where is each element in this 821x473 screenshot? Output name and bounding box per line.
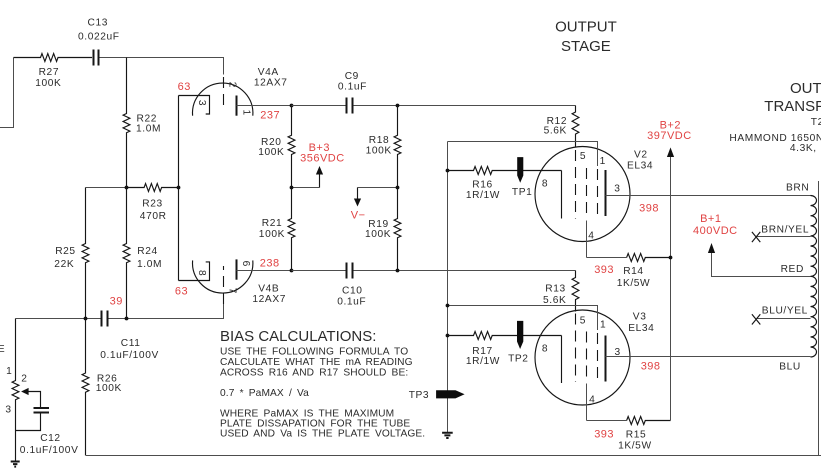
svg-text:6: 6	[240, 261, 251, 267]
tube V4A 12AX7 (top triode) envelope	[193, 83, 253, 116]
wire wiper to C12	[28, 392, 40, 408]
svg-text:OUTPUT: OUTPUT	[790, 80, 821, 97]
node junction R14/B+2 bus	[669, 256, 673, 260]
svg-text:TP2: TP2	[508, 354, 528, 365]
transformer T2 primary winding	[811, 196, 817, 358]
svg-text:393: 393	[594, 264, 614, 276]
node junction bus/R17	[446, 334, 450, 338]
svg-text:C10: C10	[342, 285, 363, 296]
V3 suppressor dashed	[597, 333, 599, 379]
wire C11 to V4B grid	[109, 304, 224, 319]
svg-text:V2: V2	[634, 150, 648, 161]
svg-text:63: 63	[175, 285, 188, 297]
wire C10 to R13 corner	[353, 270, 575, 272]
node junction R18/R19	[396, 186, 400, 190]
V2 suppressor (pin 1) wire from cathode bus	[448, 142, 598, 167]
resistor R24	[123, 188, 130, 319]
svg-text:V−: V−	[351, 209, 366, 221]
svg-text:0.7 * PaMAX / Va: 0.7 * PaMAX / Va	[220, 388, 309, 399]
node junction C10/R19	[396, 269, 400, 273]
V3 plate (pin 3)	[605, 336, 607, 382]
wire V2 plate to transformer BRN	[606, 195, 811, 197]
svg-text:R13: R13	[545, 284, 566, 295]
wire V2 screen to R14	[587, 257, 627, 259]
svg-text:397VDC: 397VDC	[647, 130, 692, 142]
svg-text:C13: C13	[88, 18, 109, 29]
svg-text:356VDC: 356VDC	[300, 153, 345, 165]
test point TP1	[517, 157, 523, 183]
svg-text:RED: RED	[781, 264, 804, 275]
wire C9 to R12 corner	[353, 105, 575, 107]
V4B plate (pin 6)	[236, 259, 238, 279]
wire left input stub	[0, 58, 14, 128]
resistor R19	[394, 188, 401, 271]
svg-text:100K: 100K	[96, 383, 122, 394]
svg-text:1.0M: 1.0M	[137, 259, 162, 270]
power B+1 arrow	[708, 243, 715, 253]
svg-text:100K: 100K	[366, 145, 392, 156]
V2 plate (pin 3)	[605, 170, 607, 216]
V3 screen grid dashed (pin 4)	[586, 332, 588, 382]
potentiometer (bias pot)	[12, 319, 19, 462]
svg-text:1K/5W: 1K/5W	[617, 278, 651, 289]
svg-text:OUTPUT: OUTPUT	[555, 19, 617, 36]
node junction bus/V3 suppressor	[446, 304, 450, 308]
V3 suppressor (pin 1) wire from cathode bus	[448, 306, 598, 331]
wire V3 plate to transformer BLU	[606, 356, 811, 358]
svg-text:R23: R23	[142, 198, 163, 209]
wire bottom coupling row y=270.5	[292, 270, 346, 272]
svg-text:R27: R27	[39, 67, 60, 78]
wire V- arrow to R19 node	[358, 187, 398, 189]
svg-text:8: 8	[542, 178, 548, 189]
resistor R25	[82, 188, 89, 319]
capacitor C9	[347, 98, 353, 114]
node junction R25/R26	[84, 317, 88, 321]
node junction plate/R21	[290, 269, 294, 273]
svg-text:BLU/YEL: BLU/YEL	[762, 305, 808, 316]
pot wiper arrow	[21, 388, 29, 395]
test point TP2	[517, 321, 523, 349]
resistor R12 (grid V2)	[572, 106, 579, 147]
V2 screen grid dashed (pin 4)	[586, 168, 588, 219]
svg-text:USE THE FOLLOWING FORMULA TO: USE THE FOLLOWING FORMULA TO	[220, 347, 408, 358]
svg-text:5.6K: 5.6K	[544, 126, 567, 137]
svg-text:5: 5	[580, 315, 586, 326]
V2 suppressor dashed	[597, 169, 599, 215]
svg-text:0.1uF/100V: 0.1uF/100V	[20, 445, 79, 456]
svg-text:1: 1	[240, 110, 251, 116]
V4A grid (dashed, pin 2)	[223, 77, 225, 108]
node junction plate/R20	[290, 104, 294, 108]
resistor R23	[127, 184, 179, 192]
V4B cathode (pin 8)	[179, 262, 210, 281]
resistor R21	[288, 188, 295, 271]
svg-text:R18: R18	[369, 135, 390, 146]
svg-text:BLU: BLU	[779, 362, 801, 373]
svg-text:R25: R25	[55, 246, 75, 257]
wire V4B plate to R21 node	[237, 270, 292, 272]
svg-text:EL34: EL34	[628, 323, 654, 334]
svg-text:100K: 100K	[258, 147, 284, 158]
svg-text:R24: R24	[137, 246, 158, 257]
V4B grid (dashed, pin 7)	[223, 266, 225, 304]
svg-text:R15: R15	[626, 430, 647, 441]
svg-text:1R/1W: 1R/1W	[466, 190, 500, 201]
capacitor C11	[102, 311, 108, 327]
svg-text:2: 2	[21, 373, 27, 384]
svg-text:1: 1	[600, 156, 606, 167]
power B+3 arrow	[319, 174, 321, 188]
V3 screen solid lead	[586, 384, 588, 421]
wire feedback row y=187.5	[86, 187, 127, 189]
svg-text:4: 4	[588, 231, 594, 242]
svg-text:C12: C12	[40, 433, 61, 444]
power B+2 arrow	[667, 147, 674, 157]
wire top coupling row y=105.3	[292, 105, 346, 107]
svg-text:1R/1W: 1R/1W	[466, 356, 500, 367]
svg-text:12AX7: 12AX7	[254, 77, 288, 88]
svg-text:C9: C9	[345, 71, 359, 82]
svg-text:E: E	[0, 344, 5, 355]
resistor R20	[288, 106, 295, 188]
svg-text:39: 39	[110, 295, 123, 307]
ground (pot)	[11, 462, 20, 467]
svg-text:B+1: B+1	[700, 213, 721, 225]
V3 grid dashed (pin 5)	[575, 314, 577, 383]
test point TP3	[436, 390, 465, 398]
node junction R20/R21	[290, 186, 294, 190]
resistor R14	[627, 254, 671, 262]
node junction R24/C11	[125, 317, 129, 321]
svg-text:100K: 100K	[365, 229, 391, 240]
V2 cathode (pin 8)	[561, 171, 563, 219]
capacitor C13	[94, 50, 99, 66]
svg-text:393: 393	[594, 429, 614, 441]
svg-text:63: 63	[178, 81, 191, 93]
V2 screen solid lead	[586, 221, 588, 258]
BLU/YEL no-connect X	[752, 314, 760, 324]
resistor R17	[448, 332, 562, 340]
svg-text:TRANSFORMER: TRANSFORMER	[764, 98, 821, 115]
svg-text:R14: R14	[623, 266, 644, 277]
wire C13 to V4A grid	[100, 58, 224, 75]
svg-text:5.6K: 5.6K	[543, 295, 566, 306]
svg-text:3: 3	[196, 100, 207, 106]
svg-text:470R: 470R	[140, 211, 167, 222]
svg-text:8: 8	[542, 343, 548, 354]
svg-text:3: 3	[614, 184, 620, 195]
svg-text:1.0M: 1.0M	[136, 124, 161, 135]
node junction bus/R16	[446, 169, 450, 173]
tube V3 EL34 envelope	[535, 310, 630, 405]
svg-text:TP1: TP1	[512, 187, 532, 198]
node junction C9/R18	[396, 104, 400, 108]
svg-text:8: 8	[196, 270, 207, 276]
capacitor C10	[347, 263, 353, 279]
transformer core line	[818, 181, 820, 456]
svg-text:3: 3	[5, 404, 11, 415]
svg-text:7: 7	[227, 288, 238, 294]
svg-text:4: 4	[589, 395, 595, 406]
wire BRN/YEL tap	[757, 236, 811, 238]
svg-text:R21: R21	[262, 218, 283, 229]
svg-text:1: 1	[6, 366, 12, 377]
svg-text:0.1uF/100V: 0.1uF/100V	[100, 350, 159, 361]
svg-text:0.1uF: 0.1uF	[337, 297, 366, 308]
svg-text:STAGE: STAGE	[561, 38, 611, 55]
power V- arrow	[357, 188, 359, 200]
node junction R22/R23	[125, 186, 129, 190]
svg-text:BIAS CALCULATIONS:: BIAS CALCULATIONS:	[220, 328, 376, 345]
svg-text:398: 398	[641, 361, 661, 373]
svg-text:4.3K,: 4.3K,	[790, 143, 817, 154]
wire RED tap to B+1	[712, 253, 811, 277]
svg-text:EL34: EL34	[627, 161, 653, 172]
tube V2 EL34 envelope	[535, 147, 630, 242]
svg-text:237: 237	[260, 109, 280, 121]
tube V4B 12AX7 (bottom triode) envelope	[193, 260, 253, 293]
svg-text:BRN: BRN	[786, 182, 809, 193]
wire BLU/YEL tap	[757, 318, 811, 320]
resistor R26	[82, 319, 89, 456]
resistor R15	[627, 417, 671, 425]
svg-text:T2: T2	[811, 117, 821, 128]
svg-text:100K: 100K	[35, 78, 61, 89]
wire B+2 bus	[670, 157, 672, 421]
capacitor C12	[34, 408, 50, 413]
V2 grid dashed (pin 5)	[575, 150, 577, 219]
svg-text:0.1uF: 0.1uF	[338, 81, 367, 92]
wire cathode ground bus	[447, 142, 449, 433]
wire V4A plate to R20 node	[237, 105, 292, 107]
svg-text:1: 1	[600, 320, 606, 331]
wire C12 to pot bottom	[16, 413, 41, 431]
svg-text:V4B: V4B	[258, 283, 279, 294]
resistor R27	[14, 54, 93, 62]
V3 cathode (pin 8)	[561, 336, 563, 384]
svg-text:2: 2	[227, 82, 238, 88]
wire cathode bus V4A-V4B	[178, 96, 180, 281]
bottom ground rail	[86, 455, 821, 457]
svg-text:C11: C11	[121, 338, 141, 349]
svg-text:1K/5W: 1K/5W	[618, 441, 652, 452]
svg-text:100K: 100K	[259, 229, 285, 240]
svg-text:0.022uF: 0.022uF	[78, 31, 120, 42]
V4A plate (pin 1)	[236, 96, 238, 116]
svg-text:400VDC: 400VDC	[693, 225, 738, 237]
resistor R18	[394, 106, 401, 188]
resistor R16	[448, 167, 562, 175]
resistor R22	[123, 58, 130, 188]
svg-text:V3: V3	[633, 311, 647, 322]
resistor R13 (grid V3)	[572, 271, 579, 312]
node junction cathode bus	[177, 186, 181, 190]
wire V3 screen to R15	[587, 420, 627, 422]
wire bias row y=318.3	[16, 318, 101, 320]
svg-text:398: 398	[639, 203, 659, 215]
svg-text:ACROSS R16 AND R17 SHOULD BE:: ACROSS R16 AND R17 SHOULD BE:	[220, 367, 408, 378]
svg-text:BRN/YEL: BRN/YEL	[761, 224, 809, 235]
BRN/YEL no-connect X	[752, 232, 760, 242]
svg-text:5: 5	[580, 151, 586, 162]
V4A cathode (pin 3)	[179, 96, 210, 115]
svg-text:12AX7: 12AX7	[252, 294, 286, 305]
svg-text:22K: 22K	[54, 259, 74, 270]
svg-text:238: 238	[260, 258, 280, 270]
svg-text:TP3: TP3	[409, 390, 429, 401]
svg-text:USED AND Va IS THE PLATE VOLTA: USED AND Va IS THE PLATE VOLTAGE.	[220, 429, 425, 440]
ground (cathode bus)	[442, 433, 453, 438]
wire R20 node to B+3 arrow	[292, 187, 320, 189]
